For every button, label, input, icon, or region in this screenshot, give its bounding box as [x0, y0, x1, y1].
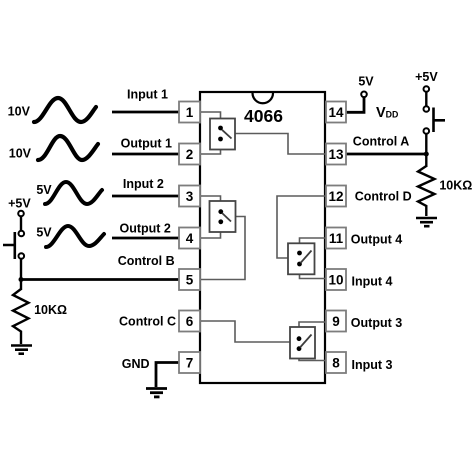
- S1 contact top: [19, 231, 25, 237]
- svg-text:5: 5: [186, 272, 194, 287]
- svg-text:10: 10: [328, 272, 343, 287]
- wire S2 to junction and resistor: [425, 134, 427, 167]
- svg-text:Control C: Control C: [119, 315, 176, 329]
- svg-text:Input 3: Input 3: [352, 358, 393, 372]
- svg-text:4: 4: [186, 231, 194, 246]
- S1 contact bottom: [19, 253, 25, 259]
- pin 6 box: [179, 311, 200, 332]
- SW1 contacts: [218, 126, 223, 131]
- wire pin4 output: [112, 237, 180, 240]
- SW4 arm: [301, 251, 312, 264]
- waveform 10V output1: [38, 136, 98, 160]
- switch SW2 box: [210, 201, 236, 232]
- wire pin5 control B: [21, 278, 180, 281]
- resistor R2 10K: [418, 166, 435, 216]
- svg-text:10V: 10V: [8, 105, 31, 119]
- svg-text:11: 11: [329, 231, 344, 246]
- svg-text:Control A: Control A: [353, 134, 409, 148]
- svg-text:8: 8: [332, 355, 340, 370]
- internal wires switch SW4 (pins11/10, ctrl D): [277, 196, 325, 279]
- svg-text:4066: 4066: [244, 106, 283, 126]
- SW3 contacts: [297, 336, 302, 341]
- pin 10 box: [326, 269, 346, 290]
- pin 13 box: [326, 144, 346, 165]
- svg-text:10KΩ: 10KΩ: [34, 303, 67, 317]
- terminal 5V circle: [361, 92, 367, 98]
- junction node pin13: [424, 152, 429, 157]
- ground symbol right: [416, 218, 437, 226]
- pin 4 box: [179, 228, 200, 249]
- svg-text:5V: 5V: [36, 183, 52, 197]
- svg-text:7: 7: [186, 355, 194, 370]
- S2 actuator: [434, 108, 446, 133]
- svg-text:1: 1: [186, 105, 194, 120]
- internal wires switch SW1 (pins1/2, ctrl A): [200, 112, 325, 154]
- svg-text:Output 1: Output 1: [121, 137, 172, 151]
- svg-text:12: 12: [328, 189, 343, 204]
- svg-text:Input 4: Input 4: [352, 274, 393, 288]
- pushbutton S1 +5V left: terminal circle: [18, 211, 24, 217]
- S2 contact top: [424, 106, 430, 112]
- svg-text:6: 6: [186, 314, 194, 329]
- svg-text:Output 3: Output 3: [351, 316, 402, 330]
- wire S1 top: [20, 216, 22, 230]
- waveform 10V input1: [34, 98, 96, 122]
- pin 7 box: [179, 352, 200, 373]
- pin 14 box: [326, 102, 346, 123]
- pin 9 box: [326, 311, 346, 332]
- svg-text:5V: 5V: [36, 226, 52, 240]
- pin 2 box: [179, 144, 200, 165]
- switch SW4 box: [288, 243, 315, 274]
- svg-text:10KΩ: 10KΩ: [439, 179, 472, 193]
- svg-text:Output 2: Output 2: [120, 222, 171, 236]
- pin 8 box: [326, 352, 346, 373]
- switch SW1 box: [210, 119, 235, 150]
- wire pin1 input: [112, 111, 180, 114]
- ground symbol left: [11, 346, 32, 354]
- svg-text:14: 14: [328, 105, 344, 120]
- wire pin7 GND: [156, 363, 180, 388]
- ground symbol at pin7: [146, 389, 167, 397]
- svg-text:Input 2: Input 2: [123, 177, 164, 191]
- svg-text:3: 3: [186, 189, 194, 204]
- S1 actuator: [3, 232, 15, 259]
- pin 3 box: [179, 186, 200, 207]
- svg-text:Control D: Control D: [355, 189, 412, 203]
- wire pin13 control A: [346, 153, 428, 156]
- svg-text:2: 2: [186, 147, 194, 162]
- wire S1 to junction and resistor: [20, 259, 22, 290]
- svg-text:+5V: +5V: [8, 197, 31, 211]
- svg-text:Control B: Control B: [118, 254, 175, 268]
- svg-text:GND: GND: [122, 357, 150, 371]
- switch SW3 box: [290, 327, 315, 359]
- internal wires switch SW3 (pins9/8, ctrl C): [200, 321, 325, 361]
- internal wires switch SW2 (pins3/4, ctrl B): [200, 196, 245, 280]
- wire pin2 output: [112, 153, 180, 156]
- IC notch: [253, 93, 274, 103]
- pin 12 box: [326, 186, 346, 207]
- wire pin3 input: [112, 195, 180, 198]
- SW4 contacts: [297, 251, 302, 256]
- pin 1 box: [179, 102, 200, 123]
- S2 contact bottom: [424, 128, 430, 134]
- svg-text:+5V: +5V: [415, 70, 438, 84]
- SW2 contacts: [218, 209, 223, 214]
- SW3 arm: [300, 335, 312, 348]
- svg-text:VDD: VDD: [376, 105, 398, 121]
- IC body U1 4066: [200, 92, 325, 383]
- svg-text:10V: 10V: [9, 147, 32, 161]
- pin 5 box: [179, 269, 200, 290]
- waveform 5V output2: [46, 226, 104, 247]
- svg-text:Output 4: Output 4: [351, 232, 402, 246]
- resistor R1 10K: [13, 289, 29, 344]
- svg-text:13: 13: [328, 147, 344, 162]
- waveform 5V input2: [45, 182, 102, 204]
- svg-text:9: 9: [332, 314, 340, 329]
- SW1 arm: [222, 130, 232, 139]
- junction node pin5: [19, 277, 24, 282]
- pin 11 box: [326, 228, 346, 249]
- SW2 arm: [222, 213, 231, 222]
- svg-text:5V: 5V: [358, 75, 374, 89]
- svg-text:Input 1: Input 1: [127, 87, 168, 101]
- wire pin14 VDD: [346, 97, 364, 112]
- wire S2 top: [425, 92, 427, 106]
- pushbutton S2 +5V right: terminal circle: [424, 86, 430, 92]
